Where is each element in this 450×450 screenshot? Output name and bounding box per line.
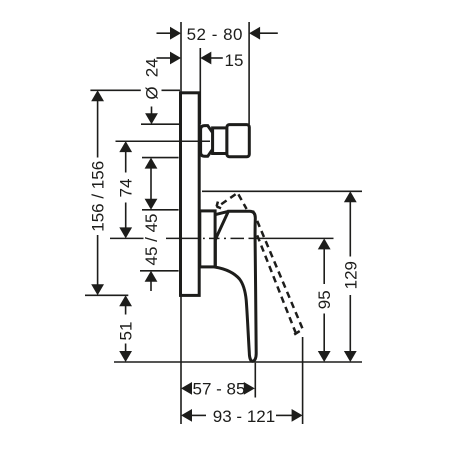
svg-text:129: 129 (341, 261, 360, 289)
svg-text:52 - 80: 52 - 80 (187, 25, 243, 44)
svg-text:Ø 24: Ø 24 (142, 58, 161, 99)
svg-text:51: 51 (117, 322, 136, 341)
svg-text:57 - 85: 57 - 85 (193, 380, 246, 399)
svg-text:45 / 45: 45 / 45 (142, 214, 161, 266)
svg-text:74: 74 (117, 179, 136, 198)
svg-text:93 - 121: 93 - 121 (213, 407, 275, 426)
svg-text:15: 15 (225, 51, 244, 70)
svg-text:95: 95 (315, 290, 334, 309)
svg-text:156 / 156: 156 / 156 (89, 161, 108, 232)
